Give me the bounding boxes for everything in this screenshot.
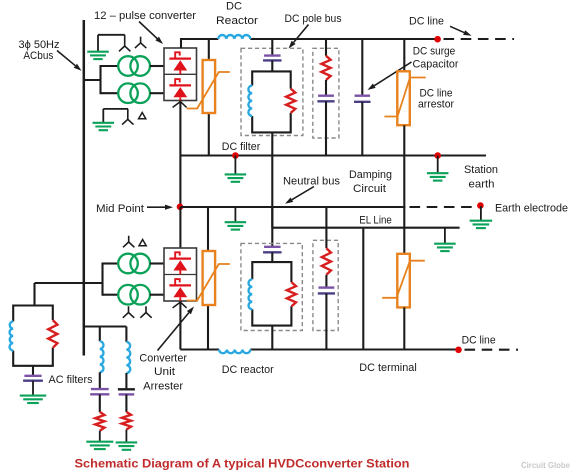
ground branch B1 xyxy=(86,441,113,443)
wye symbol Y4 xyxy=(123,236,134,248)
ground upper-left xyxy=(97,35,99,52)
wire C6 to ground xyxy=(32,381,34,396)
inductor L2 in F2 xyxy=(249,279,253,309)
wire mid point to U2 xyxy=(179,207,181,248)
svg-text:12 – pulse converter: 12 – pulse converter xyxy=(94,10,196,22)
arrestor A2 body xyxy=(397,71,410,125)
capacitor C6 xyxy=(24,375,41,377)
wire bus to A2 xyxy=(403,39,405,71)
wire C2 to neutral xyxy=(325,101,327,155)
wire DC line dashed top xyxy=(444,38,515,40)
transformer T2 lower xyxy=(118,285,138,305)
capacitor C1 xyxy=(264,54,281,56)
ground below F3 xyxy=(20,395,46,397)
inductor L4 branch B1 xyxy=(100,341,104,372)
wire C1 to loop xyxy=(271,60,273,71)
wire C8 to R7 xyxy=(125,394,127,412)
svg-text:DC line: DC line xyxy=(409,16,444,28)
wire L to wye xyxy=(98,34,125,36)
arrestor A3 body xyxy=(203,251,216,305)
arrow to C3 xyxy=(374,62,411,86)
arrestor A1 body xyxy=(203,60,216,113)
svg-text:arrestor: arrestor xyxy=(418,99,454,111)
svg-text:Circuit Globe: Circuit Globe xyxy=(521,461,571,470)
svg-text:DC reactor: DC reactor xyxy=(222,364,274,376)
arrestor A2 diagonal xyxy=(384,78,425,117)
svg-text:Schematic Diagram of A typical: Schematic Diagram of A typical HVDCconve… xyxy=(75,456,410,470)
svg-text:Neutral bus: Neutral bus xyxy=(283,176,341,188)
arrow DC line top xyxy=(450,26,464,32)
arrestor A3 wires xyxy=(207,207,209,251)
damping dashed box upper xyxy=(313,48,339,138)
DC filter F1 dashed box xyxy=(241,48,303,135)
resistor R7 branch B2 xyxy=(122,412,131,430)
wire DC terminal bus xyxy=(180,348,219,350)
wire mid to lower transformers xyxy=(35,282,103,284)
wye symbol Y1 xyxy=(119,35,130,52)
inductor DC reactor top xyxy=(218,35,250,39)
svg-text:EL Line: EL Line xyxy=(359,214,392,226)
wire C5 down xyxy=(325,293,327,349)
svg-text:DC terminal: DC terminal xyxy=(359,362,417,374)
svg-text:Damping: Damping xyxy=(349,169,392,181)
svg-text:DC line: DC line xyxy=(420,87,453,99)
arrow mid point xyxy=(147,206,165,208)
wire C7 to R6 xyxy=(99,394,101,412)
converter U1 box xyxy=(164,48,197,101)
capacitor C4 xyxy=(264,246,281,248)
svg-text:Arrester: Arrester xyxy=(143,381,183,393)
ground lower-left of T1 xyxy=(102,109,104,123)
arrow to AC bus xyxy=(57,51,75,66)
capacitor C2 damping xyxy=(318,94,334,96)
wire bus to C3 xyxy=(361,39,363,95)
wire L to wye below T1 xyxy=(103,108,128,110)
wire converter bottom to mid point xyxy=(179,101,181,208)
wire F1 down to lower filter xyxy=(271,132,273,246)
wires T2 to converter xyxy=(150,262,164,264)
wire to AC filter F3 xyxy=(33,283,35,306)
wire A4 down xyxy=(403,307,405,349)
node station earth xyxy=(434,152,441,159)
node crow-foot below U2 xyxy=(173,302,187,308)
wire R2 to C2 xyxy=(325,80,327,95)
svg-text:Capacitor: Capacitor xyxy=(413,59,459,71)
wire branch B2 top xyxy=(125,327,127,342)
svg-text:Mid Point: Mid Point xyxy=(96,203,144,215)
converter U2 box xyxy=(164,248,197,301)
node crow-foot below U1 xyxy=(173,102,187,108)
arrestor A4 body xyxy=(397,254,410,308)
arrow DC pole bus xyxy=(294,25,309,43)
capacitor C3 DC surge xyxy=(355,94,371,96)
wire DC pole bus xyxy=(181,38,218,40)
svg-text:AC filters: AC filters xyxy=(49,374,94,386)
DC filter F1 loop frame xyxy=(252,71,291,132)
thyristor valve U1b xyxy=(169,84,191,86)
wye symbol Y3 xyxy=(122,109,133,125)
ground station earth xyxy=(437,156,439,173)
svg-text:DC: DC xyxy=(226,1,242,13)
thyristor valve U2a xyxy=(169,257,191,259)
DC filter F2 loop frame xyxy=(252,262,291,326)
damping dashed box lower xyxy=(313,240,338,330)
svg-text:Circuit: Circuit xyxy=(353,183,386,195)
wire converter top xyxy=(180,38,182,48)
delta symbol D1 xyxy=(139,113,146,119)
wire to AC filter branches xyxy=(84,325,127,327)
inductor L5 branch B2 xyxy=(126,342,130,373)
arrestor A1 diagonal xyxy=(187,72,230,109)
resistor R6 branch B1 xyxy=(95,412,104,431)
wye symbol Y6 xyxy=(140,306,151,318)
svg-text:Unit: Unit xyxy=(154,366,175,378)
wye symbol Y2 xyxy=(135,37,146,49)
svg-text:Converter: Converter xyxy=(139,353,187,365)
transformer T1 upper xyxy=(118,56,138,76)
node earth electrode xyxy=(477,202,484,209)
DC filter F2 dashed box xyxy=(241,243,302,330)
inductor L1 in F1 xyxy=(248,86,252,116)
arrow converter unit arrester xyxy=(158,313,189,351)
wye symbol Y5 xyxy=(123,306,134,318)
resistor R2 damping xyxy=(321,56,330,80)
wire AC bus to upper transformers xyxy=(84,79,101,81)
svg-text:DC surge: DC surge xyxy=(413,45,456,57)
AC filter F3 loop frame xyxy=(13,306,53,366)
wire C3 to neutral xyxy=(361,102,363,156)
arrestor A3 diagonal xyxy=(187,264,230,301)
wire mid point line xyxy=(181,206,406,208)
svg-text:Reactor: Reactor xyxy=(216,15,258,27)
svg-text:earth: earth xyxy=(469,179,495,191)
node DC line top xyxy=(434,36,441,43)
wire branch B1 top xyxy=(99,327,101,342)
thyristor valve U2b xyxy=(169,284,191,286)
wire U2 bottom xyxy=(179,301,181,350)
arrestor A4 diagonal xyxy=(382,261,425,298)
arrow neutral bus xyxy=(292,187,314,200)
svg-text:DC line: DC line xyxy=(462,335,496,347)
wire AC bus vertical xyxy=(83,20,86,356)
resistor R4 damping lower xyxy=(322,248,331,275)
resistor R5 in F3 xyxy=(48,320,57,348)
wire bus to R2 xyxy=(325,39,327,56)
node Mid Point xyxy=(177,204,184,211)
wire R4 to C5 xyxy=(325,275,327,288)
resistor R3 in F2 xyxy=(287,282,296,306)
transformer T1 lower xyxy=(118,83,138,103)
wire R7 to ground xyxy=(125,430,127,443)
wire F3 to C6 xyxy=(32,366,34,376)
svg-text:Station: Station xyxy=(464,164,498,176)
arrow to converter box xyxy=(139,22,157,39)
capacitor C7 xyxy=(91,388,109,390)
capacitor C5 damping lower xyxy=(319,286,335,288)
wire bus to C1 xyxy=(271,39,273,55)
inductor DC reactor bottom xyxy=(219,350,250,354)
delta symbol D2 xyxy=(139,240,146,246)
wire L4 to C7 xyxy=(99,372,101,389)
wire mid line to R4 xyxy=(325,207,327,248)
wire L5 to C8 xyxy=(125,373,127,389)
svg-text:DC pole bus: DC pole bus xyxy=(285,13,343,25)
node DC line bottom xyxy=(455,347,462,354)
wire EL bus xyxy=(272,227,459,229)
wire DC line dashed bottom xyxy=(465,349,519,351)
svg-text:DC filter: DC filter xyxy=(222,141,261,153)
wire EL dashed line xyxy=(410,206,477,208)
capacitor C8 xyxy=(118,388,135,390)
wire plain vertical xyxy=(362,228,364,350)
node DC filter earth xyxy=(232,152,239,159)
svg-text:ACbus: ACbus xyxy=(23,50,54,62)
ground below DC filter node xyxy=(234,156,236,175)
resistor R1 in F1 xyxy=(286,89,295,113)
wire R6 to ground xyxy=(99,431,101,442)
arrestor A1 converter unit top - wires xyxy=(208,39,210,60)
wire A2 down through neutral and EL xyxy=(403,125,405,254)
ground earth electrode xyxy=(480,206,482,220)
transformer T2 upper xyxy=(118,254,138,274)
ground below mid point line xyxy=(234,207,236,222)
wire C4 to loop xyxy=(271,252,273,262)
wire mid to EL bus xyxy=(271,207,273,228)
inductor L3 in F3 xyxy=(10,321,14,350)
svg-text:Earth electrode: Earth electrode xyxy=(495,203,568,215)
thyristor valve U1a xyxy=(169,57,191,59)
ground below EL bus xyxy=(444,228,446,244)
wires T1 to converter xyxy=(150,65,164,67)
wire F2 to DC terminal bus xyxy=(271,326,273,350)
ground branch B2 xyxy=(116,441,137,443)
wire neutral bus xyxy=(181,154,487,156)
